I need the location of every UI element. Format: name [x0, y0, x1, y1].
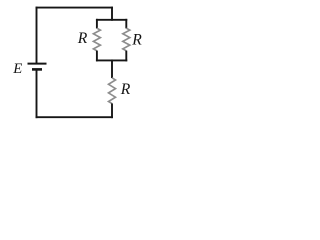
wire parallel top bar	[96, 19, 127, 21]
wire left vertical (bottom section, battery - to bottom-left corner)	[36, 69, 38, 118]
battery E1 short negative plate	[32, 68, 42, 71]
svg-text:R: R	[77, 30, 88, 47]
wire top horizontal	[36, 7, 113, 9]
wire bottom horizontal	[36, 116, 113, 118]
resistor R1 (left of parallel pair)	[93, 19, 100, 62]
wire feed vertical into parallel pair	[111, 7, 113, 21]
svg-text:R: R	[131, 31, 142, 48]
svg-text:E: E	[12, 61, 22, 77]
resistor R3 (series, lower right)	[109, 59, 116, 118]
wire left vertical (top section, battery + to top-left corner)	[36, 7, 38, 64]
wire parallel bottom bar	[96, 59, 127, 61]
resistor R2 (right of parallel pair)	[123, 19, 130, 62]
svg-text:R: R	[120, 81, 131, 98]
battery E1 long positive plate	[28, 63, 47, 65]
